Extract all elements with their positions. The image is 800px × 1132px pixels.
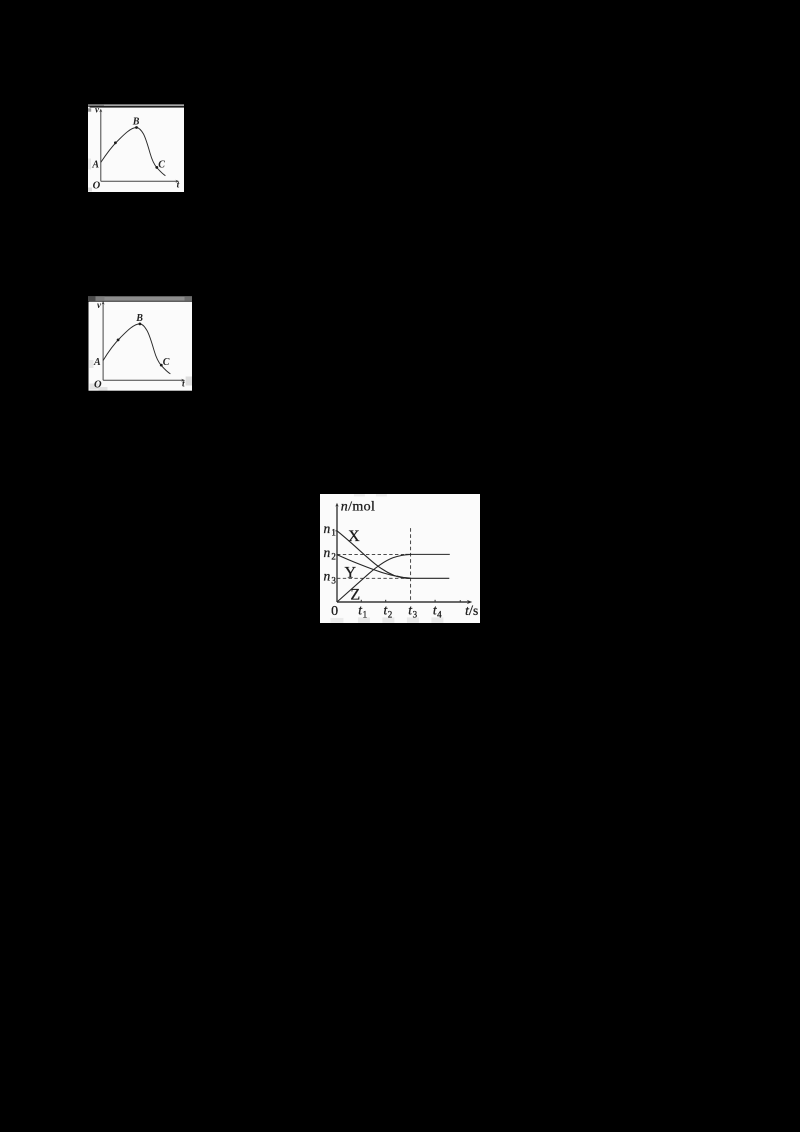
point on curve between A and B — [114, 141, 117, 144]
svg-text:n: n — [323, 521, 330, 536]
equilibrium line at n3 after t3 — [409, 578, 449, 580]
svg-text:C: C — [158, 159, 165, 170]
tick t4 — [434, 600, 436, 602]
svg-text:t: t — [177, 180, 180, 190]
svg-text:4: 4 — [437, 610, 442, 620]
thin dark line under bar — [90, 106, 184, 107]
figure 1 top gray bar — [88, 104, 184, 106]
thin dark line under bar — [88, 299, 192, 302]
v-axis (vertical) with arrow — [100, 110, 102, 181]
scan artifact smudges below tick labels — [330, 618, 343, 623]
svg-text:C: C — [162, 356, 169, 367]
svg-text:n: n — [323, 569, 330, 584]
scan artifact smudges top edge — [354, 494, 365, 497]
curve A-B-C — [103, 323, 170, 373]
t-axis (horizontal) with arrow — [101, 180, 178, 182]
t-axis (horizontal) with arrow — [103, 379, 183, 381]
svg-text:t: t — [182, 379, 185, 389]
svg-text:B: B — [135, 313, 143, 324]
equilibrium line at n2 after t3 — [405, 554, 449, 556]
point C — [159, 363, 162, 366]
svg-text:n/mol: n/mol — [341, 500, 376, 515]
svg-text:1: 1 — [362, 610, 367, 620]
t-axis (horizontal) with arrow — [337, 601, 470, 603]
svg-text:O: O — [93, 180, 101, 191]
svg-text:Y: Y — [344, 565, 356, 582]
svg-text:A: A — [91, 159, 99, 170]
point on curve between A and B — [116, 338, 119, 341]
svg-text:t/s: t/s — [465, 603, 478, 619]
svg-text:n: n — [323, 545, 330, 560]
svg-text:0: 0 — [331, 604, 338, 619]
tick t2 — [385, 600, 387, 602]
svg-text:X: X — [348, 528, 360, 545]
scan artifact squares — [89, 360, 93, 368]
vertical dashed line at t3 — [409, 528, 411, 602]
figure 2: v-t graph (second) — [88, 296, 193, 391]
v-axis (vertical) with arrow — [102, 302, 104, 380]
point B — [135, 126, 138, 129]
figure 2 white background — [88, 301, 192, 390]
dashed level line n2 — [337, 554, 405, 556]
curve X: falls from n1 to n3 — [337, 531, 411, 579]
tick at n1 on axis — [335, 530, 336, 532]
n-axis (vertical) with arrow — [336, 505, 338, 602]
svg-text:1: 1 — [331, 528, 336, 538]
X-Y merge knot before t3 — [397, 576, 409, 578]
svg-text:O: O — [94, 379, 102, 390]
svg-text:3: 3 — [412, 610, 417, 620]
figure 1: v-t graph (top-left) — [88, 104, 184, 192]
curve A-B-C — [101, 127, 166, 175]
point B — [138, 322, 141, 325]
svg-text:2: 2 — [331, 552, 336, 562]
figure 1 white background — [88, 106, 184, 191]
scan artifact squares left edge — [88, 108, 91, 111]
dashed level line n3 — [337, 578, 409, 580]
figure 3: n/mol vs t/s chart — [320, 494, 480, 622]
svg-text:A: A — [93, 356, 101, 367]
point C — [155, 166, 158, 169]
figure 2 top gray bar — [88, 296, 193, 301]
tick t1 — [360, 600, 362, 602]
tick far right — [459, 600, 461, 602]
svg-text:2: 2 — [388, 610, 393, 620]
svg-text:3: 3 — [331, 576, 336, 586]
curve Y: falls from n2 to n3 — [337, 555, 410, 578]
svg-text:B: B — [132, 116, 140, 127]
curve Z: rises from origin to n2 — [337, 555, 410, 602]
svg-text:Z: Z — [350, 587, 360, 604]
